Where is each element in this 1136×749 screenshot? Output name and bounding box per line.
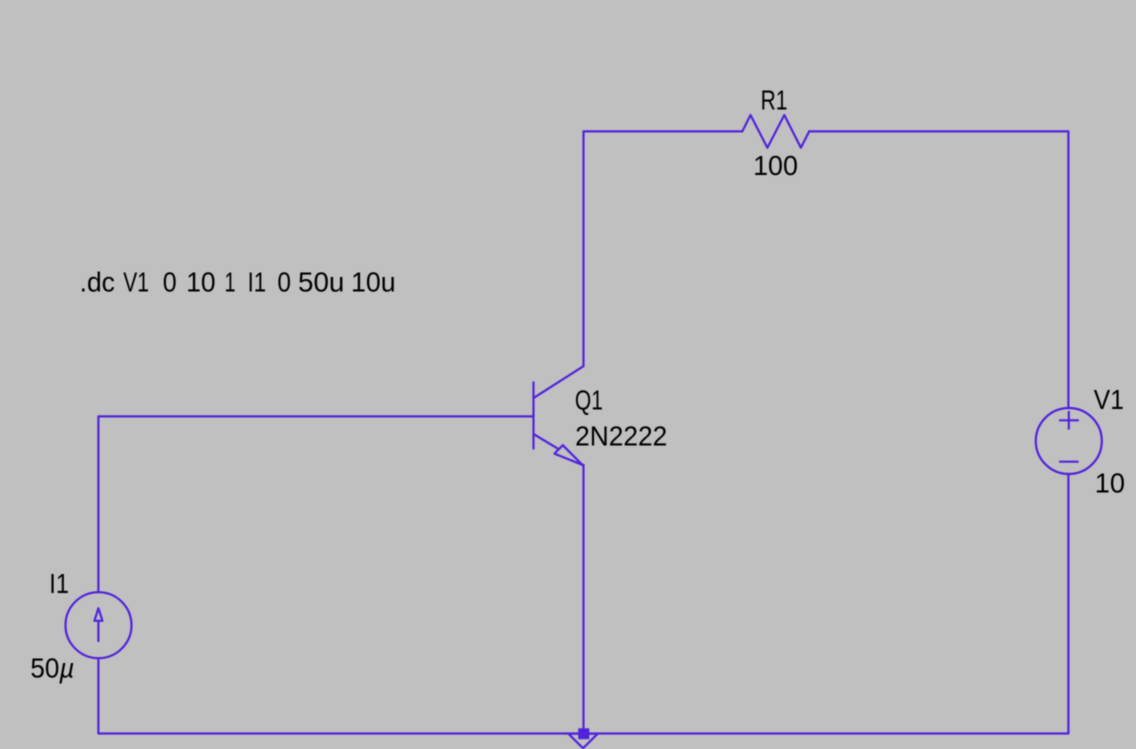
svg-text:10: 10	[186, 266, 215, 298]
svg-text:I1: I1	[49, 569, 69, 599]
svg-text:100: 100	[753, 149, 798, 181]
svg-text:Q1: Q1	[575, 386, 603, 417]
svg-text:50u: 50u	[298, 266, 344, 297]
svg-text:V1: V1	[1094, 383, 1124, 415]
svg-text:0: 0	[277, 266, 291, 298]
svg-text:10u: 10u	[351, 266, 396, 298]
svg-text:R1: R1	[761, 86, 788, 117]
svg-text:10: 10	[1095, 467, 1125, 498]
svg-text:V1: V1	[123, 268, 149, 299]
svg-text:.dc: .dc	[80, 266, 115, 298]
svg-text:1: 1	[225, 267, 236, 298]
svg-text:I1: I1	[248, 267, 266, 298]
svg-text:2N2222: 2N2222	[575, 420, 667, 452]
svg-text:0: 0	[163, 266, 177, 298]
svg-text:50µ: 50µ	[30, 652, 74, 683]
